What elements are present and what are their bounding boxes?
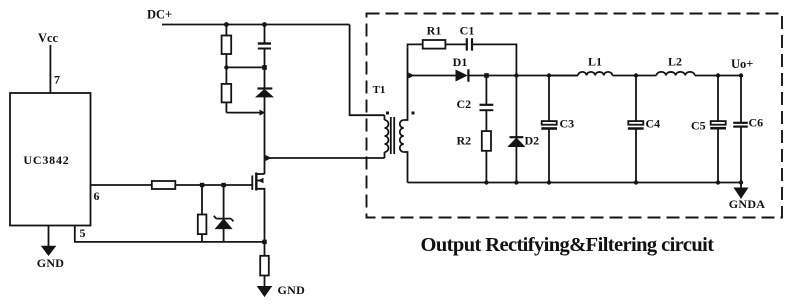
wire DC+ to primary top bbox=[350, 25, 385, 116]
resistor R2 bbox=[482, 131, 491, 151]
svg-text:C2: C2 bbox=[457, 97, 472, 111]
junction dot bbox=[262, 65, 267, 70]
junction dots bottom rail bbox=[484, 180, 488, 184]
svg-text:Vcc: Vcc bbox=[38, 31, 59, 45]
svg-text:C5: C5 bbox=[691, 119, 706, 133]
transformer T1 label bbox=[373, 84, 386, 96]
pin 5 label bbox=[80, 226, 86, 240]
capacitor C3 with wires bbox=[548, 76, 550, 122]
IC U1 UC3842 bbox=[10, 93, 91, 226]
svg-text:UC3842: UC3842 bbox=[23, 153, 69, 167]
resistor R1 bbox=[423, 40, 446, 49]
ground GND under IC bbox=[48, 226, 50, 248]
junction dot C3 branch bbox=[547, 73, 551, 77]
pin 7 label bbox=[54, 73, 60, 87]
svg-text:GNDA: GNDA bbox=[729, 197, 766, 211]
transformer T1 primary winding bbox=[384, 115, 386, 120]
wire rail secondary to D1 bbox=[408, 75, 457, 77]
junction dot bbox=[200, 183, 204, 187]
zener diode Dz gate clamp bbox=[223, 185, 225, 218]
pin 5 wire bbox=[75, 226, 265, 242]
wire pin 6 to gate resistor bbox=[91, 184, 152, 186]
inductor L2 bbox=[656, 72, 694, 76]
svg-text:R2: R2 bbox=[457, 134, 472, 148]
wire top snubber branch left bbox=[408, 44, 423, 47]
transformer T1 core bbox=[390, 117, 392, 154]
wire bottom rail bbox=[408, 182, 742, 184]
svg-text:Uo+: Uo+ bbox=[731, 57, 753, 71]
svg-text:6: 6 bbox=[94, 189, 100, 203]
wire secondary top lead bbox=[407, 48, 409, 117]
svg-text:T1: T1 bbox=[373, 84, 386, 96]
svg-text:L2: L2 bbox=[668, 55, 682, 69]
junction dot D2 branch bbox=[514, 73, 518, 77]
svg-text:R1: R1 bbox=[427, 24, 442, 38]
svg-text:GND: GND bbox=[37, 256, 65, 270]
pin 6 label bbox=[94, 189, 100, 203]
node Uo+ label bbox=[731, 57, 753, 71]
junction dot C6 branch bbox=[739, 73, 743, 77]
resistor Ra (clamp upper) with wires bbox=[225, 25, 227, 36]
caption text bbox=[421, 234, 715, 256]
wire gate resistor to gate bbox=[175, 184, 252, 186]
svg-text:5: 5 bbox=[80, 226, 86, 240]
svg-text:GND: GND bbox=[278, 283, 306, 297]
wire Vcc to pin 7 bbox=[49, 45, 51, 93]
junction dot bbox=[221, 183, 225, 187]
junction dot C4 branch bbox=[634, 73, 638, 77]
wire main top rail bbox=[468, 75, 578, 77]
transformer T1 secondary winding bbox=[404, 117, 408, 120]
svg-text:DC+: DC+ bbox=[147, 8, 172, 22]
wire C1 to right corner down to rail bbox=[472, 44, 516, 75]
wire L2 to Uo+ bbox=[695, 75, 741, 77]
resistor Rb (clamp lower) with wires bbox=[225, 67, 227, 84]
transformer T1 polarity mark secondary bbox=[412, 112, 415, 115]
node Vcc label bbox=[38, 31, 59, 45]
resistor Rs (sense) with wires bbox=[264, 242, 266, 256]
capacitor C6 with wires bbox=[740, 76, 742, 123]
wire clamp mid connector bbox=[226, 66, 264, 68]
junction secondary to rail with arrow bbox=[409, 73, 415, 79]
capacitor C5 with wires bbox=[717, 76, 719, 122]
svg-text:C4: C4 bbox=[646, 117, 661, 131]
wire secondary bottom lead bbox=[407, 155, 409, 183]
resistor Rg (gate) bbox=[152, 181, 176, 189]
junction dot C2 branch bbox=[484, 73, 489, 78]
junction dot C5 branch bbox=[716, 73, 720, 77]
svg-text:7: 7 bbox=[54, 73, 60, 87]
wire L1 to L2 bbox=[612, 75, 656, 77]
junction dot bbox=[224, 65, 228, 69]
dashed enclosure box bbox=[367, 14, 783, 218]
diode D1 bbox=[456, 70, 467, 80]
svg-text:C6: C6 bbox=[749, 116, 764, 130]
diode Da (clamp) bbox=[264, 67, 266, 88]
diode D2 bbox=[515, 76, 517, 137]
wire R1 to C1 bbox=[445, 43, 466, 45]
svg-text:C3: C3 bbox=[560, 117, 575, 131]
ground GND at sense resistor bbox=[258, 287, 272, 297]
transformer T1 polarity mark primary bbox=[386, 112, 389, 115]
svg-text:Output Rectifying&Filtering ci: Output Rectifying&Filtering circuit bbox=[421, 234, 715, 256]
node DC+ label bbox=[147, 8, 172, 22]
wire DC+ rail bbox=[162, 24, 350, 26]
capacitor C1 bbox=[466, 38, 468, 50]
wire drain vertical bbox=[264, 113, 266, 174]
capacitor C2 with wires bbox=[485, 76, 487, 105]
svg-text:C1: C1 bbox=[460, 24, 475, 38]
transistor Q1 MOSFET bbox=[251, 176, 253, 191]
wire clamp bottom connector bbox=[226, 112, 261, 114]
junction dot bbox=[262, 22, 267, 27]
ground GNDA bbox=[734, 188, 747, 198]
resistor Rgs (gate-source) with wires bbox=[201, 185, 203, 215]
junction dot source node bbox=[262, 240, 266, 244]
capacitor Ca (clamp) with wires bbox=[264, 25, 266, 44]
svg-text:D1: D1 bbox=[453, 55, 468, 69]
wire drain to transformer primary bbox=[265, 157, 385, 159]
svg-text:L1: L1 bbox=[588, 55, 602, 69]
svg-text:D2: D2 bbox=[525, 134, 540, 148]
capacitor C4 with wires bbox=[635, 76, 637, 122]
junction dot bbox=[224, 22, 229, 27]
inductor L1 bbox=[549, 75, 578, 77]
